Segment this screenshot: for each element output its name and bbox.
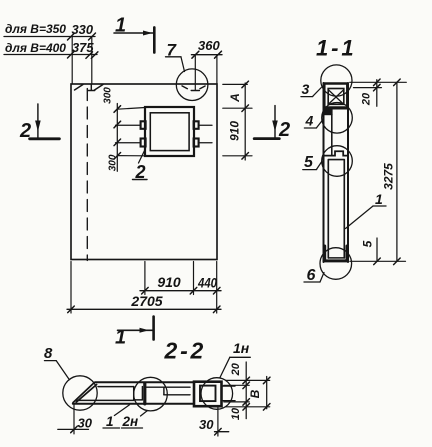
corner tick slash right bbox=[95, 85, 104, 91]
dim 20 (top right of section 1-1) bbox=[350, 79, 407, 106]
label 3 bbox=[301, 81, 321, 97]
svg-text:В: В bbox=[248, 389, 262, 398]
label 1н bbox=[220, 340, 251, 378]
label 4 bbox=[304, 112, 322, 128]
cross pattern bbox=[329, 90, 344, 104]
left wedge outer chamfer bbox=[73, 382, 95, 402]
bottom dim 2705 bbox=[67, 293, 221, 313]
opening inner frame bbox=[150, 113, 189, 151]
dim A / 910 right of panel bbox=[223, 81, 252, 160]
svg-text:910: 910 bbox=[228, 121, 242, 141]
corner tick slash left bbox=[75, 85, 84, 91]
dim 30 left bbox=[58, 405, 93, 434]
top cap item 3 bbox=[324, 84, 347, 108]
leader 2 at opening bbox=[133, 149, 148, 183]
joint 2н pocket left wall bbox=[133, 387, 135, 400]
element left wall bbox=[323, 83, 325, 262]
svg-text:1: 1 bbox=[106, 414, 114, 429]
box 1н inner bbox=[200, 386, 216, 402]
svg-text:2н: 2н bbox=[122, 414, 139, 429]
svg-text:1 - 1: 1 - 1 bbox=[316, 36, 353, 61]
section marker 1 (top) bbox=[114, 15, 154, 53]
box 1н outer bbox=[194, 382, 222, 407]
dim 3275 bbox=[382, 79, 401, 265]
callout circle 3 bbox=[321, 65, 352, 96]
joint item 4 bbox=[324, 108, 349, 110]
svg-text:А: А bbox=[228, 93, 242, 103]
fixing tab top-left bbox=[141, 121, 146, 129]
dim 30 right bbox=[199, 406, 229, 436]
bottom dims 910 / 440 bbox=[71, 262, 221, 314]
bottom cap item 6 bbox=[325, 246, 347, 261]
svg-text:30: 30 bbox=[78, 416, 93, 431]
corner tee mark bbox=[88, 84, 95, 90]
svg-text:5: 5 bbox=[304, 154, 314, 171]
svg-text:2: 2 bbox=[278, 119, 290, 141]
inner walls of lower piece bbox=[328, 160, 344, 258]
inner bottom line left part bbox=[76, 399, 134, 401]
step block bbox=[324, 110, 332, 115]
section marker 2 (right) bbox=[254, 106, 290, 141]
element bottom edge bbox=[73, 403, 194, 405]
fixing tab bottom-left bbox=[141, 139, 146, 147]
callout circle 4 bbox=[322, 103, 353, 134]
label 8 bbox=[44, 345, 69, 380]
svg-text:30: 30 bbox=[199, 417, 214, 432]
svg-text:5: 5 bbox=[361, 240, 375, 247]
joint 2н thick bar bbox=[143, 384, 146, 404]
svg-text:2 - 2: 2 - 2 bbox=[163, 338, 203, 364]
svg-text:4: 4 bbox=[305, 112, 314, 128]
extension line left bbox=[71, 37, 73, 84]
svg-text:для В=400: для В=400 bbox=[5, 41, 66, 55]
svg-text:20: 20 bbox=[230, 362, 242, 376]
svg-text:300: 300 bbox=[107, 154, 118, 171]
tab leader lines bbox=[116, 125, 213, 143]
dim 360 (top) bbox=[191, 38, 222, 90]
strip step bbox=[163, 387, 165, 395]
dim 5 (bottom right of section 1-1) bbox=[350, 238, 406, 265]
callout circle 5 bbox=[322, 146, 353, 177]
svg-text:330: 330 bbox=[72, 22, 94, 37]
dashed line (alternative edge position) bbox=[86, 89, 88, 261]
inner liner of cap bbox=[328, 89, 344, 105]
inner wall of mid piece bbox=[331, 115, 333, 156]
section marker 1 (bottom) bbox=[115, 317, 154, 349]
right dim chain 20 / В / 10 bbox=[224, 362, 270, 420]
left wedge inner chamfer bbox=[76, 385, 96, 403]
tick bbox=[89, 33, 96, 40]
label 2н bbox=[122, 411, 148, 430]
dim chain 300/300 left of opening bbox=[102, 87, 145, 172]
svg-text:1: 1 bbox=[115, 327, 126, 349]
callout circle 8 bbox=[63, 376, 97, 410]
joint 2н pocket right wall bbox=[141, 387, 143, 400]
svg-text:360: 360 bbox=[198, 38, 220, 53]
opening outer frame bbox=[145, 107, 194, 156]
tick bbox=[86, 52, 93, 59]
svg-text:2705: 2705 bbox=[130, 293, 162, 309]
extension line right bbox=[91, 38, 93, 85]
callout circle 7 bbox=[176, 69, 208, 101]
element right wall bbox=[347, 83, 349, 262]
callout circle 1н bbox=[201, 378, 233, 410]
joint 2н pocket bottom bbox=[134, 399, 143, 401]
svg-text:910: 910 bbox=[157, 274, 181, 290]
callout 7 label bbox=[166, 41, 185, 72]
label 1 bbox=[103, 405, 130, 429]
element top edge bbox=[95, 381, 194, 383]
right stubs bbox=[223, 385, 235, 387]
svg-text:440: 440 bbox=[197, 275, 217, 291]
dim line 375 bbox=[4, 54, 97, 56]
dim line 330 bbox=[4, 36, 95, 38]
joint item 5 (stepped top of lower piece) bbox=[324, 151, 349, 155]
tick bbox=[68, 51, 75, 58]
callout circle 6 bbox=[320, 248, 352, 280]
svg-text:3275: 3275 bbox=[382, 163, 396, 190]
svg-text:300: 300 bbox=[102, 87, 113, 104]
svg-text:2: 2 bbox=[19, 120, 31, 142]
svg-text:3: 3 bbox=[302, 81, 310, 97]
label 1 with leader bbox=[346, 191, 387, 229]
svg-text:8: 8 bbox=[44, 345, 53, 362]
section marker 2 (left) bbox=[19, 104, 59, 142]
callout circle 2н bbox=[134, 377, 168, 411]
panel outline bbox=[71, 84, 217, 260]
svg-text:1н: 1н bbox=[233, 340, 250, 356]
inner bottom line bbox=[328, 257, 344, 259]
strip lower line bbox=[164, 394, 190, 396]
inner top line left part bbox=[98, 386, 134, 388]
svg-text:для В=350: для В=350 bbox=[5, 22, 66, 36]
fixing tab bottom-right bbox=[194, 139, 199, 147]
strip upper line bbox=[147, 386, 191, 388]
label 5 bbox=[303, 154, 322, 171]
label 6 bbox=[304, 267, 324, 284]
anchor item detail inside circle 7 bbox=[182, 86, 205, 91]
svg-text:1: 1 bbox=[375, 191, 383, 207]
svg-text:10: 10 bbox=[230, 407, 242, 420]
fixing tab top-right bbox=[194, 121, 199, 129]
tick bbox=[68, 33, 75, 40]
svg-text:20: 20 bbox=[361, 92, 373, 106]
